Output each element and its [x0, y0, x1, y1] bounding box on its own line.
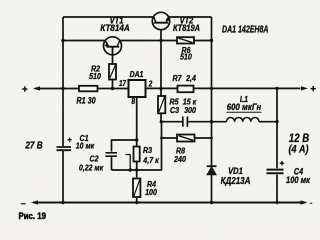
wire VT2 base column	[160, 30, 162, 89]
svg-text:300: 300	[184, 105, 196, 115]
svg-text:510: 510	[89, 71, 101, 81]
wire output column	[276, 88, 278, 202]
junction VD1 anode / bottom rail	[210, 201, 213, 204]
diode VD1	[207, 166, 217, 175]
junction pin 8 column / C2 loop top	[135, 138, 138, 141]
resistor R7	[178, 86, 194, 93]
plus of C4	[280, 161, 284, 165]
svg-text:КТ819А: КТ819А	[173, 22, 200, 33]
wire left bus lower	[62, 151, 64, 203]
junction left bus / bottom rail	[61, 201, 64, 204]
junction R2 bottom / pin 17 wire	[111, 87, 114, 90]
svg-text:600 мкГн: 600 мкГн	[227, 101, 261, 112]
wire R8 leads	[162, 137, 212, 139]
junction output column / output wire	[275, 87, 278, 90]
arrow bottom right	[301, 200, 308, 204]
junction R3 bottom / R4 top	[135, 168, 138, 171]
arrow input left	[33, 86, 40, 90]
junction R4 bottom / bottom rail	[135, 201, 138, 204]
wire C2 bottom lead	[111, 157, 113, 170]
capacitor C3	[183, 117, 188, 127]
plus input	[22, 86, 27, 91]
svg-text:(4 А): (4 А)	[289, 144, 310, 156]
svg-text:100: 100	[145, 188, 157, 198]
svg-text:510: 510	[180, 52, 192, 62]
svg-text:DA1: DA1	[130, 69, 144, 79]
junction R7 right / mid column	[210, 87, 213, 90]
wire R2 leads	[112, 47, 114, 89]
resistor R4	[133, 179, 140, 198]
svg-text:2: 2	[148, 79, 153, 89]
junction R6 right / mid column	[210, 39, 213, 42]
wire right mid vertical bus	[211, 17, 213, 203]
svg-text:4,7 к: 4,7 к	[142, 156, 159, 166]
wire R5 leads	[160, 89, 162, 122]
resistor R3 trimmer	[134, 147, 140, 162]
svg-text:R3: R3	[143, 145, 153, 155]
svg-text:С3: С3	[170, 105, 180, 115]
wire input + line	[35, 88, 129, 90]
wire base rail y40	[63, 40, 212, 42]
junction left bus / input wire	[61, 87, 64, 90]
capacitor C1	[57, 147, 72, 150]
svg-text:КТ814А: КТ814А	[100, 22, 130, 33]
wire L1 net y122	[161, 121, 277, 123]
arrow output right	[301, 86, 308, 90]
junction R8 right lead	[210, 137, 213, 140]
minus bottom left	[21, 203, 26, 205]
trimmer tap of R3	[126, 155, 131, 171]
resistor R2	[109, 64, 116, 80]
junction mid column / L1 net	[210, 120, 213, 123]
resistor R5	[158, 96, 165, 113]
junction VT2 base / y40 rail	[159, 39, 162, 42]
svg-text:27 В: 27 В	[24, 140, 43, 151]
inductor L1	[227, 118, 259, 122]
capacitor C2	[106, 153, 118, 156]
svg-text:10 мк: 10 мк	[76, 141, 95, 151]
junction C4 bottom / bottom rail	[275, 201, 278, 204]
IC DA1 box	[129, 80, 146, 97]
svg-text:2,4: 2,4	[185, 73, 196, 83]
wire pin8 column	[136, 97, 138, 170]
svg-text:100 мк: 100 мк	[286, 174, 311, 185]
transistor VT1	[104, 37, 122, 56]
svg-text:КД213А: КД213А	[221, 175, 251, 186]
junction R8 left lead	[160, 137, 163, 140]
svg-text:240: 240	[173, 155, 186, 165]
resistor R6	[177, 37, 194, 43]
svg-text:R7: R7	[172, 73, 182, 83]
resistor R1	[79, 86, 98, 92]
wire R5 bottom vertical	[112, 122, 162, 170]
junction R5 bottom / L1 net	[160, 120, 163, 123]
wire top rail	[63, 16, 212, 18]
wire C2 loop top	[112, 140, 137, 152]
junction VT2 base / pin 2 wire	[159, 87, 162, 90]
wire output line pin2	[146, 87, 301, 89]
capacitor C4	[267, 170, 284, 174]
junction output column / L1 net	[275, 120, 278, 123]
wire R4 leads	[136, 170, 138, 203]
wire left bus upper	[62, 17, 64, 146]
resistor R8	[177, 135, 195, 142]
transistor VT2	[152, 12, 169, 29]
plus output	[311, 86, 316, 91]
plus of C1	[68, 138, 72, 142]
svg-text:0,22 мк: 0,22 мк	[79, 163, 104, 173]
minus bottom right	[310, 202, 313, 204]
underline of 600 uH	[227, 111, 262, 113]
svg-text:17: 17	[119, 80, 127, 89]
svg-text:R1 30: R1 30	[76, 96, 96, 106]
junction left bus / VT1 base rail	[61, 39, 64, 42]
junction R3 tap / bottom loop wire	[129, 168, 132, 171]
arrow bottom left	[31, 200, 38, 204]
wire bottom rail	[33, 202, 306, 204]
svg-text:DA1 142ЕН8А: DA1 142ЕН8А	[222, 24, 269, 35]
svg-text:Рис. 19: Рис. 19	[19, 210, 47, 221]
